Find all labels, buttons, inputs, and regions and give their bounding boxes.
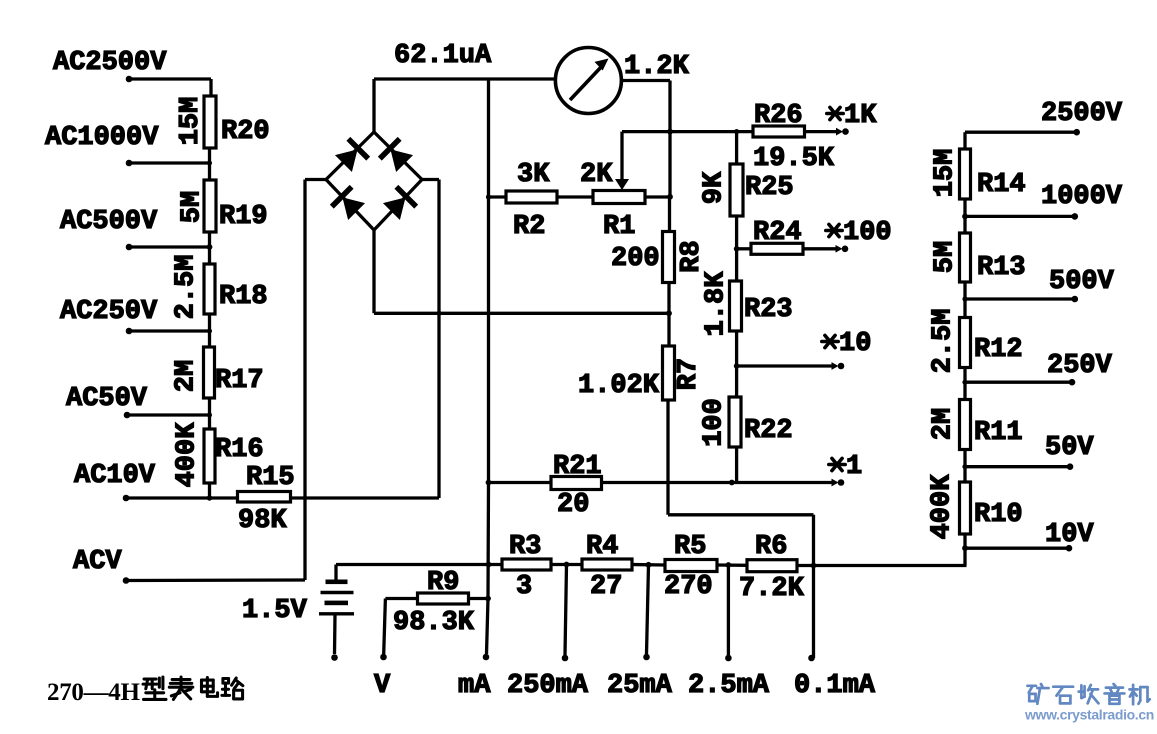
wire bridge left leg xyxy=(305,178,326,181)
node *100 terminal xyxy=(803,218,892,253)
svg-text:27: 27 xyxy=(590,572,622,602)
svg-text:R2: R2 xyxy=(513,212,545,242)
svg-text:50V: 50V xyxy=(1045,433,1094,463)
node V terminal xyxy=(374,654,391,701)
svg-text:V: V xyxy=(374,671,391,701)
resistor R14 xyxy=(931,149,1026,200)
watermark crystalradio logo xyxy=(1024,684,1154,723)
svg-text:R19: R19 xyxy=(219,202,268,232)
wire R17 to R16 xyxy=(208,398,211,430)
svg-text:R24: R24 xyxy=(753,218,802,248)
wire mA rail down xyxy=(485,483,491,655)
wire DC minus rail xyxy=(374,310,672,316)
svg-text:400K: 400K xyxy=(928,474,958,540)
diode bridge rectifier xyxy=(326,132,422,230)
wire R6 to right chain bottom xyxy=(797,564,967,567)
svg-text:R3: R3 xyxy=(509,532,541,562)
resistor R26 xyxy=(753,101,835,174)
meter M 62.1uA xyxy=(394,41,621,114)
svg-text:AC1000V: AC1000V xyxy=(45,123,159,153)
battery BT 1.5V xyxy=(242,565,354,655)
svg-text:R18: R18 xyxy=(219,282,268,312)
svg-text:62.1uA: 62.1uA xyxy=(394,41,492,71)
svg-text:250V: 250V xyxy=(1047,351,1113,381)
node *1K terminal xyxy=(805,101,878,135)
resistor R5 xyxy=(664,532,717,602)
svg-text:270: 270 xyxy=(664,572,713,602)
wire bridge bottom leg xyxy=(372,230,375,313)
resistor R19 xyxy=(178,180,268,232)
svg-text:2.5M: 2.5M xyxy=(172,255,202,320)
wire center rail R1 junction xyxy=(667,129,673,232)
resistor R4 xyxy=(582,532,632,602)
svg-text:98.3K: 98.3K xyxy=(393,608,475,638)
node battery minus terminal xyxy=(331,654,338,661)
resistor R25 xyxy=(700,164,794,216)
node AC500V terminal xyxy=(60,207,158,250)
svg-text:R15: R15 xyxy=(246,463,295,493)
wire left DC rail xyxy=(486,79,491,483)
svg-text:10V: 10V xyxy=(1045,520,1094,550)
svg-text:AC2500V: AC2500V xyxy=(53,48,167,78)
svg-text:R25: R25 xyxy=(745,173,794,203)
svg-text:10: 10 xyxy=(839,329,871,359)
wire R2 row xyxy=(489,195,671,198)
node AC2500V terminal xyxy=(53,48,167,82)
wire 50V tap xyxy=(962,464,1070,469)
svg-text:400K: 400K xyxy=(173,422,203,488)
svg-text:100: 100 xyxy=(700,398,730,447)
potentiometer R1 xyxy=(580,132,645,242)
wire R3-R4 junction to 250mA xyxy=(551,562,582,655)
svg-text:5M: 5M xyxy=(178,191,208,223)
wire R4-R5 junction to 25mA xyxy=(632,562,665,654)
svg-text:1K: 1K xyxy=(844,101,877,131)
wire 1000V tap xyxy=(962,214,1075,220)
node 250V terminal xyxy=(1047,351,1113,386)
resistor R23 xyxy=(702,271,793,337)
resistor R12 xyxy=(929,309,1023,374)
wire wiper rail to R25 xyxy=(734,129,739,165)
node 250mA terminal xyxy=(507,655,589,701)
svg-text:R6: R6 xyxy=(755,532,787,562)
wire ACV to bridge left leg xyxy=(126,180,305,581)
resistor R7 xyxy=(578,346,704,401)
svg-text:R8: R8 xyxy=(677,240,707,272)
wire R7 down and jog to 0.1mA leg xyxy=(668,400,814,658)
svg-text:20: 20 xyxy=(557,490,589,520)
node *1 terminal xyxy=(602,452,863,486)
node mA terminal xyxy=(458,654,491,701)
node 500V terminal xyxy=(1049,267,1115,302)
wire AC250V tap xyxy=(129,329,212,334)
node ACV terminal xyxy=(73,547,129,584)
node AC10V terminal xyxy=(74,461,156,501)
wire R14 to R13 xyxy=(963,199,966,234)
svg-text:R5: R5 xyxy=(674,532,706,562)
svg-text:2500V: 2500V xyxy=(1041,99,1123,129)
svg-text:R16: R16 xyxy=(215,435,264,465)
svg-text:AC50V: AC50V xyxy=(66,384,148,414)
resistor R22 xyxy=(700,397,793,447)
svg-text:R13: R13 xyxy=(977,253,1026,283)
wire R9 to mA rail xyxy=(469,597,489,600)
wire 500V tap xyxy=(962,296,1074,301)
wire bridge right leg xyxy=(422,178,439,181)
svg-text:R21: R21 xyxy=(553,452,602,482)
resistor R20 xyxy=(176,96,270,148)
svg-text:www.crystalradio.cn: www.crystalradio.cn xyxy=(1024,707,1154,723)
wire R18 to R17 xyxy=(208,314,211,348)
svg-text:R22: R22 xyxy=(744,416,793,446)
node 2.5mA terminal xyxy=(688,655,770,701)
node 50V terminal xyxy=(1045,433,1094,470)
svg-text:R17: R17 xyxy=(215,366,264,396)
svg-text:2M: 2M xyxy=(172,360,202,392)
svg-text:270—4H: 270—4H xyxy=(47,679,141,706)
node *10 terminal xyxy=(737,329,872,370)
svg-text:AC10V: AC10V xyxy=(74,461,156,491)
svg-text:1.2K: 1.2K xyxy=(624,52,690,82)
svg-text:3K: 3K xyxy=(517,160,550,190)
node 0.1mA terminal xyxy=(794,563,876,701)
node 10V terminal xyxy=(965,520,1094,552)
svg-text:mA: mA xyxy=(458,671,491,701)
svg-text:7.2K: 7.2K xyxy=(739,574,805,604)
svg-text:R10: R10 xyxy=(974,500,1023,530)
node AC1000V terminal xyxy=(45,123,159,166)
svg-text:R20: R20 xyxy=(221,117,270,147)
wire R1 wiper rail xyxy=(622,130,753,133)
resistor R9 xyxy=(393,568,475,638)
node 1000V terminal xyxy=(1041,182,1123,220)
svg-text:R12: R12 xyxy=(974,335,1023,365)
resistor R18 xyxy=(172,255,268,320)
wire 2500V tap xyxy=(965,132,1077,150)
svg-text:R26: R26 xyxy=(754,101,803,131)
svg-text:1: 1 xyxy=(846,452,862,482)
svg-text:2M: 2M xyxy=(929,408,959,440)
wire R19 to R18 xyxy=(208,232,211,265)
caption 270-4H type meter circuit xyxy=(47,677,243,706)
wire R15 to bridge right leg xyxy=(291,180,440,499)
resistor R6 xyxy=(739,532,805,604)
node 2500V terminal xyxy=(1041,99,1123,136)
svg-text:R9: R9 xyxy=(427,568,459,598)
svg-text:9K: 9K xyxy=(700,171,730,204)
wire R23 to R22 xyxy=(734,331,740,398)
svg-text:1000V: 1000V xyxy=(1041,182,1123,212)
wire bridge top leg xyxy=(372,79,375,132)
svg-text:3: 3 xyxy=(516,572,532,602)
wire 250V tap xyxy=(962,380,1072,385)
resistor R11 xyxy=(929,400,1023,450)
wire R13 to R12 xyxy=(963,282,966,319)
svg-text:0.1mA: 0.1mA xyxy=(794,671,876,701)
svg-text:R11: R11 xyxy=(974,418,1023,448)
wire R25 to R23 xyxy=(734,216,740,282)
resistor R24 xyxy=(737,218,803,254)
wire R5-R6 junction to 2.5mA xyxy=(717,562,747,655)
node AC50V terminal xyxy=(66,384,148,418)
svg-text:500V: 500V xyxy=(1049,267,1115,297)
wire meter to center rail xyxy=(622,81,671,199)
svg-text:15M: 15M xyxy=(176,97,206,146)
wire R10 to chain bottom xyxy=(962,534,968,566)
wire R20 to R19 xyxy=(208,148,211,181)
svg-text:2.5mA: 2.5mA xyxy=(688,671,770,701)
svg-text:R14: R14 xyxy=(977,170,1026,200)
svg-text:1.02K: 1.02K xyxy=(578,371,660,401)
wire AC500V tap xyxy=(129,244,212,250)
wire AC1000V tap xyxy=(129,161,212,166)
wire top rail xyxy=(374,77,556,80)
svg-text:25mA: 25mA xyxy=(607,671,673,701)
svg-text:ACV: ACV xyxy=(73,547,122,577)
wire R16 to AC10V rail xyxy=(208,483,211,498)
wire R12 to R11 xyxy=(963,368,966,401)
resistor R21 xyxy=(486,452,602,520)
wire R9 to V terminal xyxy=(384,599,418,655)
wire R22 to *1 rail xyxy=(729,447,737,485)
svg-text:AC250V: AC250V xyxy=(60,297,158,327)
wire R8 to R7 xyxy=(667,282,670,347)
svg-text:19.5K: 19.5K xyxy=(753,144,835,174)
svg-text:R1: R1 xyxy=(603,212,635,242)
resistor R17 xyxy=(172,347,264,398)
svg-text:200: 200 xyxy=(611,244,660,274)
resistor R16 xyxy=(173,422,264,488)
wire bottom measure rail xyxy=(336,562,502,568)
svg-text:1.8K: 1.8K xyxy=(702,271,732,337)
resistor R2 xyxy=(506,160,557,242)
svg-text:R23: R23 xyxy=(744,295,793,325)
wire AC2500V to R20 top xyxy=(129,79,211,97)
wire AC10V to R15 xyxy=(126,495,238,500)
resistor R10 xyxy=(928,474,1023,540)
resistor R15 xyxy=(238,463,295,536)
wire AC50V tap xyxy=(127,413,212,418)
svg-text:15M: 15M xyxy=(931,149,961,198)
svg-text:AC500V: AC500V xyxy=(60,207,158,237)
svg-text:100: 100 xyxy=(843,218,892,248)
svg-text:R4: R4 xyxy=(586,532,618,562)
svg-text:R7: R7 xyxy=(674,358,704,390)
resistor R3 xyxy=(502,532,551,602)
svg-text:250mA: 250mA xyxy=(507,671,589,701)
wire R11 to R10 xyxy=(963,450,966,484)
svg-text:98K: 98K xyxy=(238,506,287,536)
resistor R13 xyxy=(931,233,1026,283)
node 25mA terminal xyxy=(607,654,673,701)
node AC250V terminal xyxy=(60,297,158,334)
svg-text:2.5M: 2.5M xyxy=(929,309,959,374)
svg-text:5M: 5M xyxy=(931,241,961,273)
svg-text:1.5V: 1.5V xyxy=(242,596,308,626)
resistor R8 xyxy=(611,232,707,283)
svg-text:2K: 2K xyxy=(580,160,613,190)
